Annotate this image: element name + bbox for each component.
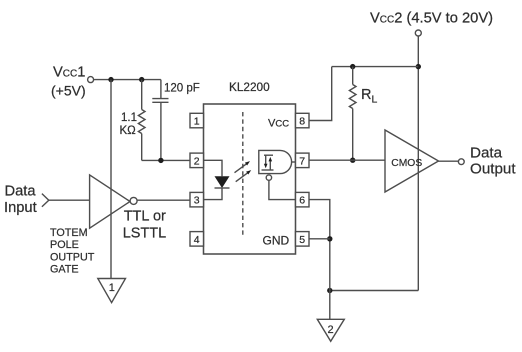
svg-text:3: 3: [194, 195, 200, 207]
resistor 1.1 KΩ: [138, 80, 190, 161]
wire bottom rail: [330, 290, 419, 292]
svg-text:VCC: VCC: [268, 118, 289, 130]
svg-text:LSTTL: LSTTL: [123, 226, 167, 242]
ground 1: [98, 279, 126, 303]
label RL: [361, 87, 377, 106]
svg-text:1: 1: [109, 282, 115, 294]
pin 3: [190, 192, 204, 207]
junction RL bottom on pin7 line: [350, 158, 355, 163]
junction Vcc1 to gate supply: [108, 77, 113, 82]
node Vcc2 terminal: [415, 30, 421, 36]
wire pin 6 right and down to ground 2: [309, 200, 330, 320]
svg-text:8: 8: [299, 116, 305, 128]
wire top-right rail: [332, 66, 419, 68]
wire dashed isolation line: [242, 112, 244, 235]
light arrow upper: [235, 161, 251, 173]
wire pin 8 to top rail: [309, 67, 332, 121]
svg-text:KL2200: KL2200: [229, 80, 270, 94]
svg-text:CMOS: CMOS: [391, 158, 422, 169]
transistor photo-detector: [259, 150, 292, 173]
label GND pin 5: [263, 234, 290, 248]
detector internal symbol: [262, 155, 274, 170]
light arrow lower: [236, 170, 252, 182]
pin 8: [296, 113, 310, 128]
pin 1: [190, 113, 204, 128]
svg-text:Input: Input: [4, 200, 37, 216]
svg-text:Output: Output: [470, 161, 516, 178]
capacitor 120 pF: [152, 80, 168, 161]
pin 6: [296, 192, 310, 207]
svg-text:2: 2: [194, 155, 200, 167]
ground 2: [317, 319, 344, 341]
svg-text:POLE: POLE: [50, 239, 79, 251]
label KL2200: [229, 80, 270, 94]
label Vcc2 (4.5V to 20V): [370, 10, 493, 26]
label TOTEM POLE OUTPUT GATE: [50, 227, 95, 276]
wire gate supply vertical through TTL gate to ground 1: [110, 80, 112, 279]
node detector bubble: [266, 175, 271, 180]
svg-text:GND: GND: [263, 234, 290, 248]
svg-text:1.1: 1.1: [121, 112, 137, 124]
svg-text:6: 6: [299, 195, 305, 207]
svg-text:Data: Data: [470, 144, 503, 161]
wire LED cathode to pin 3: [204, 188, 223, 200]
node TTL inverter bubble: [130, 197, 137, 204]
wire CMOS output: [439, 160, 459, 162]
node Data Output terminal: [458, 159, 464, 165]
diode LED emitter: [215, 176, 230, 188]
buffer U3 TTL gate: [90, 175, 130, 228]
svg-text:(+5V): (+5V): [51, 83, 86, 99]
svg-text:4: 4: [194, 234, 200, 246]
svg-text:Data: Data: [5, 184, 37, 200]
svg-text:OUTPUT: OUTPUT: [50, 251, 95, 263]
junction bottom rail left: [327, 288, 332, 293]
label ground 2 number: [327, 324, 333, 336]
label 1.1 KΩ: [120, 112, 138, 137]
junction Vcc2 rail: [416, 64, 421, 69]
buffer U2 CMOS: [385, 130, 439, 192]
label CMOS: [391, 158, 422, 169]
wire detector output to pin 7: [292, 161, 296, 163]
svg-text:7: 7: [299, 155, 305, 167]
label ground 1 number: [109, 282, 115, 294]
svg-text:120 pF: 120 pF: [164, 83, 200, 95]
svg-text:5: 5: [299, 234, 305, 246]
svg-text:GATE: GATE: [50, 264, 79, 276]
junction pin 5: [327, 236, 332, 241]
wire Vcc2 vertical down through CMOS buffer to bottom rail: [417, 36, 419, 290]
resistor RL: [349, 67, 356, 161]
pin 4: [190, 232, 204, 247]
wire pin 2 internal to LED anode: [204, 160, 223, 176]
label 120 pF: [164, 83, 200, 95]
svg-text:2: 2: [327, 324, 333, 336]
label Data Output: [470, 144, 516, 177]
label Data Input: [4, 184, 37, 216]
wire pin 7 to CMOS input: [309, 159, 385, 161]
junction capacitor bottom: [158, 158, 163, 163]
svg-text:TTL or: TTL or: [124, 209, 166, 225]
pin 7: [296, 153, 310, 168]
node input chevron: [42, 194, 49, 207]
label Vcc pin 8: [268, 118, 289, 130]
wire pin 5: [309, 238, 330, 240]
wire detector bubble to pin 6: [269, 180, 296, 199]
optocoupler U1 KL2200 body: [204, 104, 296, 254]
pin 2: [190, 153, 204, 168]
node Vcc1 terminal: [88, 77, 94, 83]
label Vcc1 (+5V): [51, 65, 86, 99]
wire TTL output to pin 3: [137, 199, 190, 201]
svg-text:1: 1: [194, 116, 200, 128]
wire top-left rail: [94, 79, 161, 81]
svg-text:TOTEM: TOTEM: [50, 227, 88, 239]
pin 5: [296, 232, 310, 247]
svg-text:KΩ: KΩ: [120, 125, 137, 137]
junction RL top: [350, 64, 355, 69]
wire input to TTL gate: [49, 199, 90, 201]
label TTL or LSTTL: [123, 209, 167, 242]
junction Vcc1 to resistor: [139, 77, 144, 82]
